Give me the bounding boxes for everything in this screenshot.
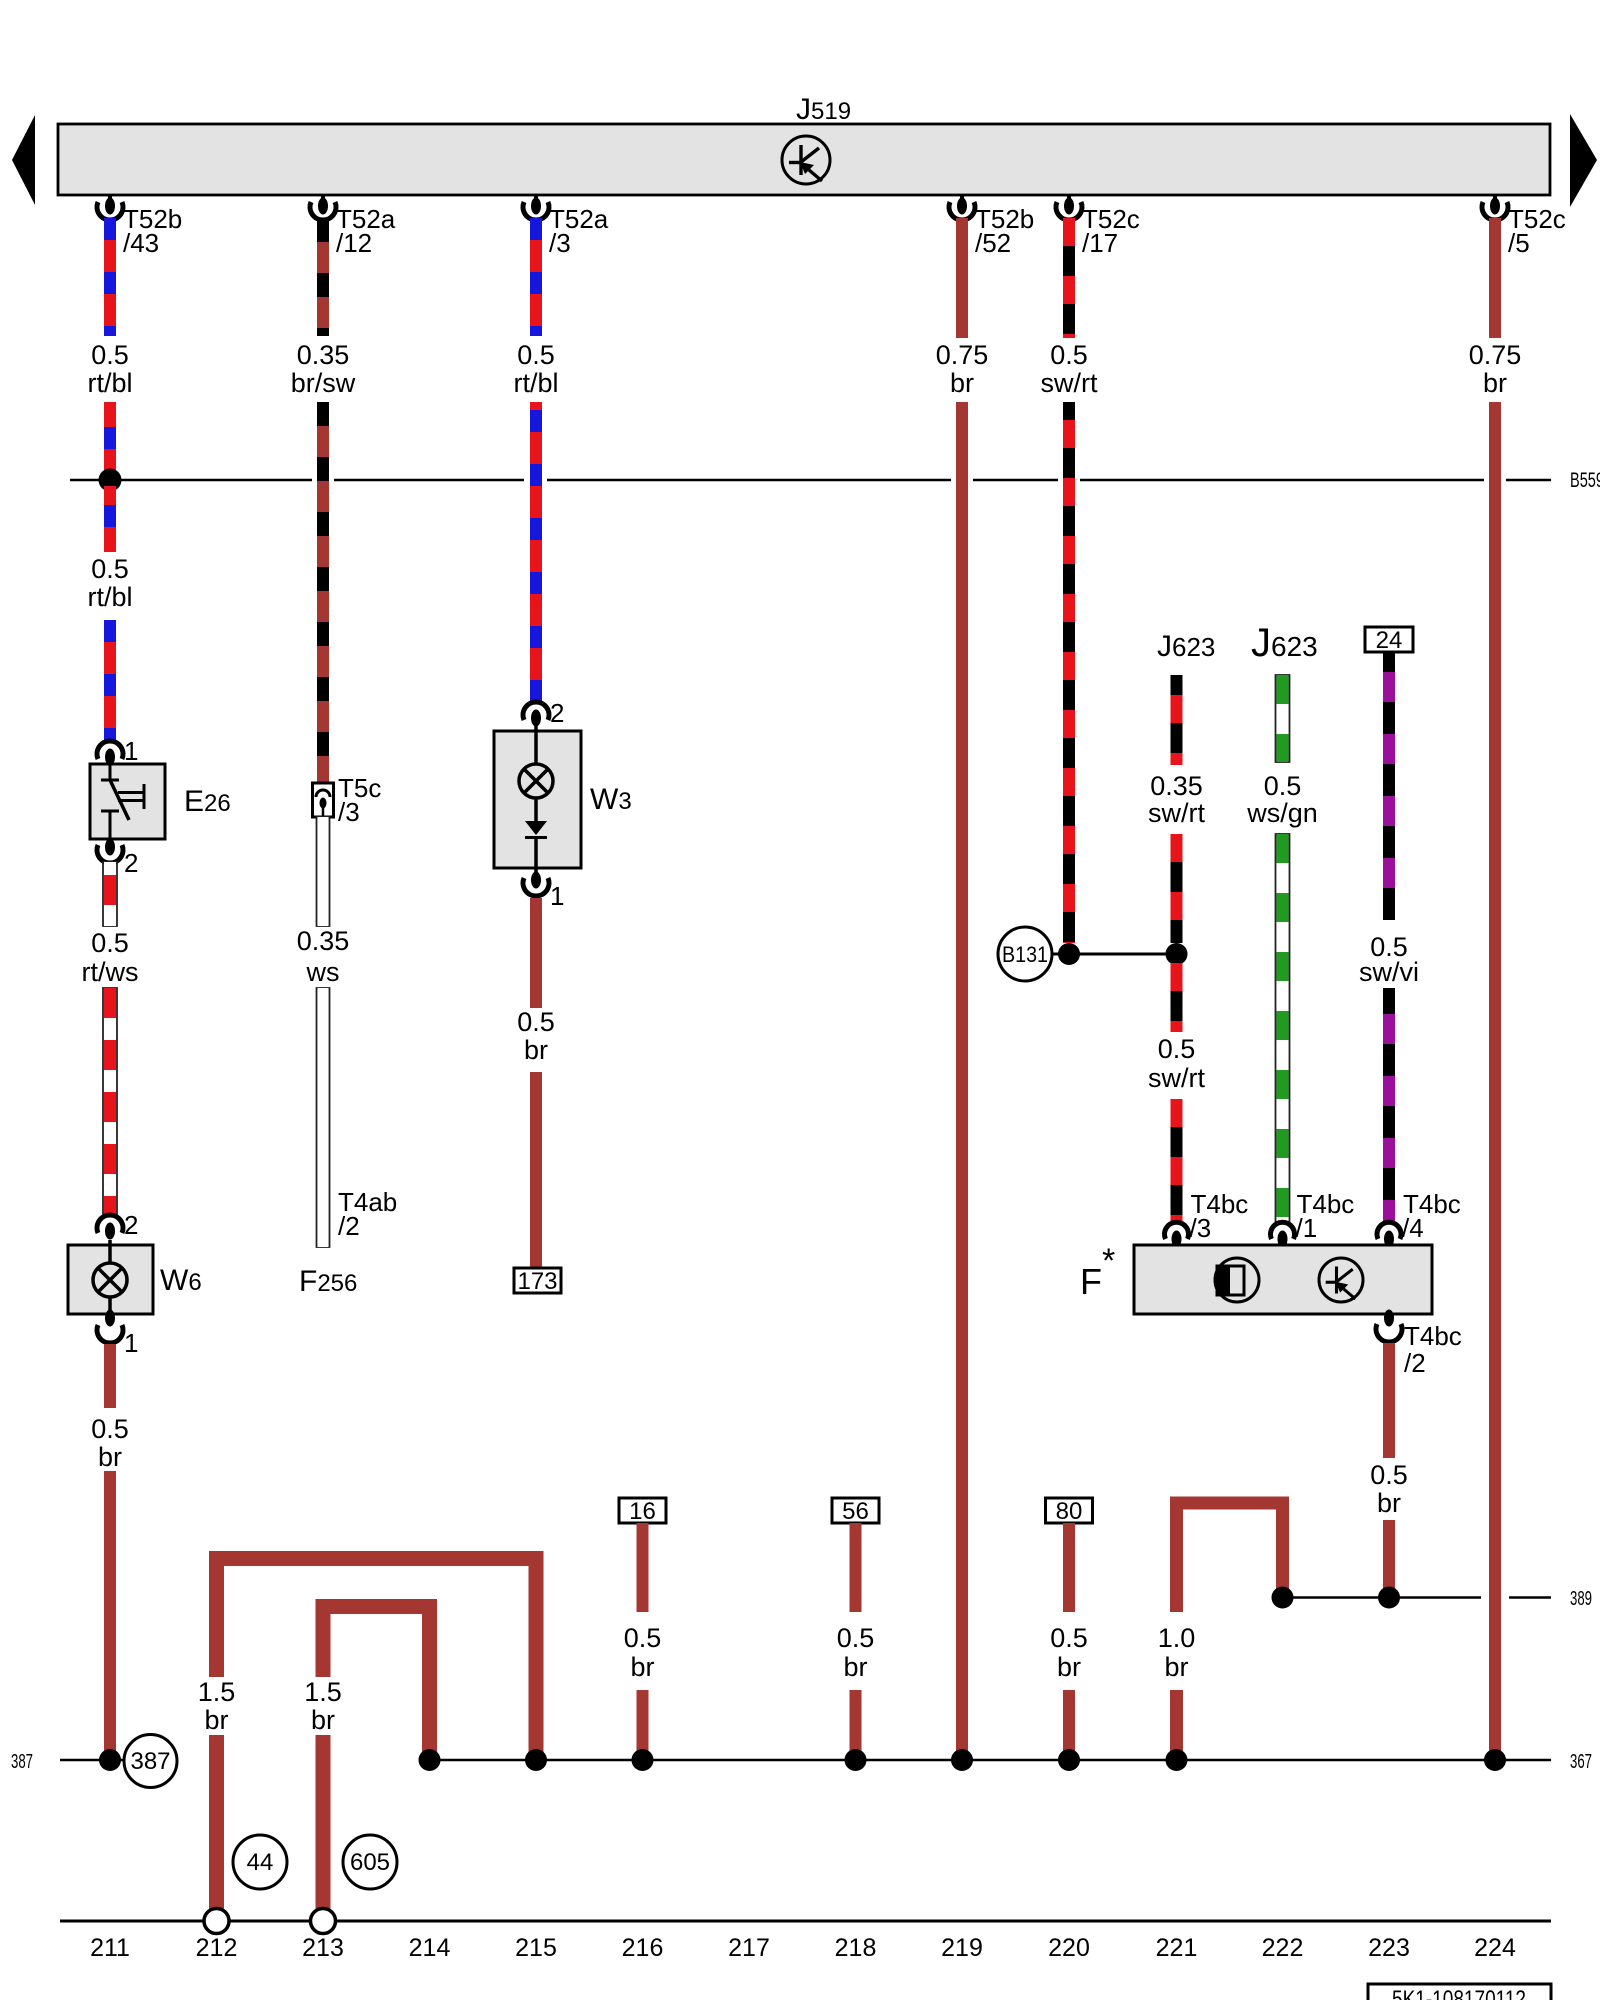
svg-text:/5: /5	[1508, 228, 1530, 258]
svg-text:W3: W3	[590, 783, 632, 816]
svg-text:0.5: 0.5	[91, 554, 129, 584]
svg-text:16: 16	[629, 1498, 656, 1525]
svg-text:/4: /4	[1402, 1213, 1424, 1243]
svg-text:2: 2	[550, 698, 564, 728]
svg-text:0.75: 0.75	[1469, 340, 1522, 370]
svg-text:0.5: 0.5	[517, 340, 555, 370]
svg-text:367: 367	[1570, 1751, 1592, 1773]
svg-text:216: 216	[622, 1934, 664, 1962]
svg-text:212: 212	[196, 1934, 238, 1962]
svg-text:E26: E26	[184, 785, 231, 818]
svg-text:0.5: 0.5	[517, 1007, 555, 1037]
svg-text:0.5: 0.5	[91, 340, 129, 370]
svg-text:0.5: 0.5	[1264, 771, 1302, 801]
svg-text:0.5: 0.5	[91, 928, 129, 958]
svg-text:br: br	[98, 1442, 122, 1472]
svg-text:0.35: 0.35	[1150, 771, 1203, 801]
svg-text:br: br	[1483, 368, 1507, 398]
svg-text:2: 2	[124, 1210, 138, 1240]
svg-text:T4bc: T4bc	[1404, 1321, 1462, 1351]
svg-text:/43: /43	[123, 228, 159, 258]
svg-text:24: 24	[1376, 627, 1403, 654]
svg-text:224: 224	[1474, 1934, 1516, 1962]
svg-text:ws: ws	[306, 957, 340, 987]
svg-text:F: F	[1080, 1261, 1102, 1302]
svg-text:0.5: 0.5	[624, 1623, 662, 1653]
svg-text:br: br	[204, 1705, 228, 1735]
svg-text:J519: J519	[796, 93, 851, 126]
svg-text:80: 80	[1056, 1498, 1083, 1525]
svg-text:213: 213	[302, 1934, 344, 1962]
svg-text:br: br	[630, 1652, 654, 1682]
svg-text:5K1-108170112: 5K1-108170112	[1392, 1986, 1526, 2000]
svg-text:0.35: 0.35	[297, 926, 350, 956]
svg-text:sw/rt: sw/rt	[1148, 798, 1205, 828]
svg-text:211: 211	[90, 1934, 130, 1962]
svg-text:/3: /3	[549, 228, 571, 258]
svg-text:F256: F256	[299, 1265, 357, 1298]
svg-text:56: 56	[842, 1498, 869, 1525]
svg-text:0.75: 0.75	[936, 340, 989, 370]
svg-text:/17: /17	[1082, 228, 1118, 258]
svg-text:387: 387	[130, 1748, 170, 1775]
svg-text:/12: /12	[336, 228, 372, 258]
svg-text:0.5: 0.5	[91, 1414, 129, 1444]
svg-text:rt/bl: rt/bl	[513, 368, 558, 398]
svg-text:215: 215	[515, 1934, 557, 1962]
svg-text:2: 2	[124, 848, 138, 878]
svg-text:1: 1	[124, 736, 138, 766]
svg-text:220: 220	[1048, 1934, 1090, 1962]
svg-text:44: 44	[247, 1849, 274, 1876]
svg-text:218: 218	[835, 1934, 877, 1962]
svg-text:0.5: 0.5	[1370, 1460, 1408, 1490]
svg-text:219: 219	[941, 1934, 983, 1962]
svg-text:*: *	[1102, 1242, 1115, 1280]
svg-text:1: 1	[550, 881, 564, 911]
svg-text:217: 217	[728, 1934, 770, 1962]
svg-text:br: br	[1164, 1652, 1188, 1682]
svg-text:br: br	[311, 1705, 335, 1735]
svg-text:214: 214	[409, 1934, 451, 1962]
svg-text:222: 222	[1262, 1934, 1304, 1962]
svg-text:br: br	[843, 1652, 867, 1682]
svg-text:br: br	[1057, 1652, 1081, 1682]
svg-text:/3: /3	[338, 797, 360, 827]
svg-text:rt/bl: rt/bl	[87, 368, 132, 398]
svg-text:0.5: 0.5	[1050, 1623, 1088, 1653]
svg-text:br/sw: br/sw	[291, 368, 356, 398]
svg-text:221: 221	[1156, 1934, 1198, 1962]
svg-text:/2: /2	[338, 1211, 360, 1241]
svg-text:B131: B131	[1002, 942, 1048, 967]
svg-text:ws/gn: ws/gn	[1246, 798, 1318, 828]
svg-text:br: br	[950, 368, 974, 398]
svg-text:0.5: 0.5	[1158, 1034, 1196, 1064]
svg-text:/52: /52	[975, 228, 1011, 258]
svg-text:1.5: 1.5	[304, 1677, 342, 1707]
svg-text:br: br	[1377, 1488, 1401, 1518]
svg-text:/1: /1	[1296, 1213, 1318, 1243]
svg-text:/3: /3	[1190, 1213, 1212, 1243]
svg-text:W6: W6	[160, 1264, 202, 1297]
svg-text:1.5: 1.5	[198, 1677, 236, 1707]
svg-text:/2: /2	[1404, 1348, 1426, 1378]
svg-text:389: 389	[1570, 1588, 1592, 1610]
svg-text:J623: J623	[1157, 630, 1215, 663]
svg-text:rt/bl: rt/bl	[87, 582, 132, 612]
svg-text:sw/rt: sw/rt	[1041, 368, 1098, 398]
svg-text:1.0: 1.0	[1158, 1623, 1196, 1653]
svg-text:sw/vi: sw/vi	[1359, 957, 1419, 987]
svg-text:0.35: 0.35	[297, 340, 350, 370]
svg-text:605: 605	[350, 1849, 390, 1876]
svg-text:173: 173	[517, 1268, 557, 1295]
svg-text:0.5: 0.5	[837, 1623, 875, 1653]
svg-text:B559: B559	[1570, 469, 1600, 492]
svg-text:223: 223	[1368, 1934, 1410, 1962]
svg-text:sw/rt: sw/rt	[1148, 1063, 1205, 1093]
svg-text:rt/ws: rt/ws	[82, 957, 139, 987]
svg-text:1: 1	[124, 1328, 138, 1358]
svg-text:387: 387	[11, 1751, 33, 1773]
svg-text:0.5: 0.5	[1050, 340, 1088, 370]
svg-text:br: br	[524, 1035, 548, 1065]
